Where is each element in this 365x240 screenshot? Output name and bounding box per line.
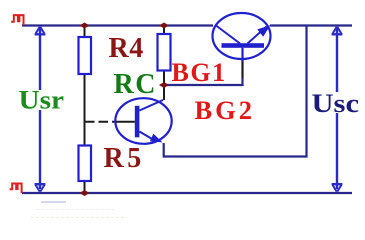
svg-text:BG1: BG1	[172, 58, 227, 87]
svg-text:BG2: BG2	[195, 95, 256, 125]
svg-text:RC: RC	[114, 69, 157, 100]
svg-text:R5: R5	[104, 143, 145, 174]
svg-text:Usc: Usc	[312, 89, 360, 118]
svg-text:R4: R4	[109, 33, 144, 64]
svg-text:Usr: Usr	[19, 86, 65, 115]
